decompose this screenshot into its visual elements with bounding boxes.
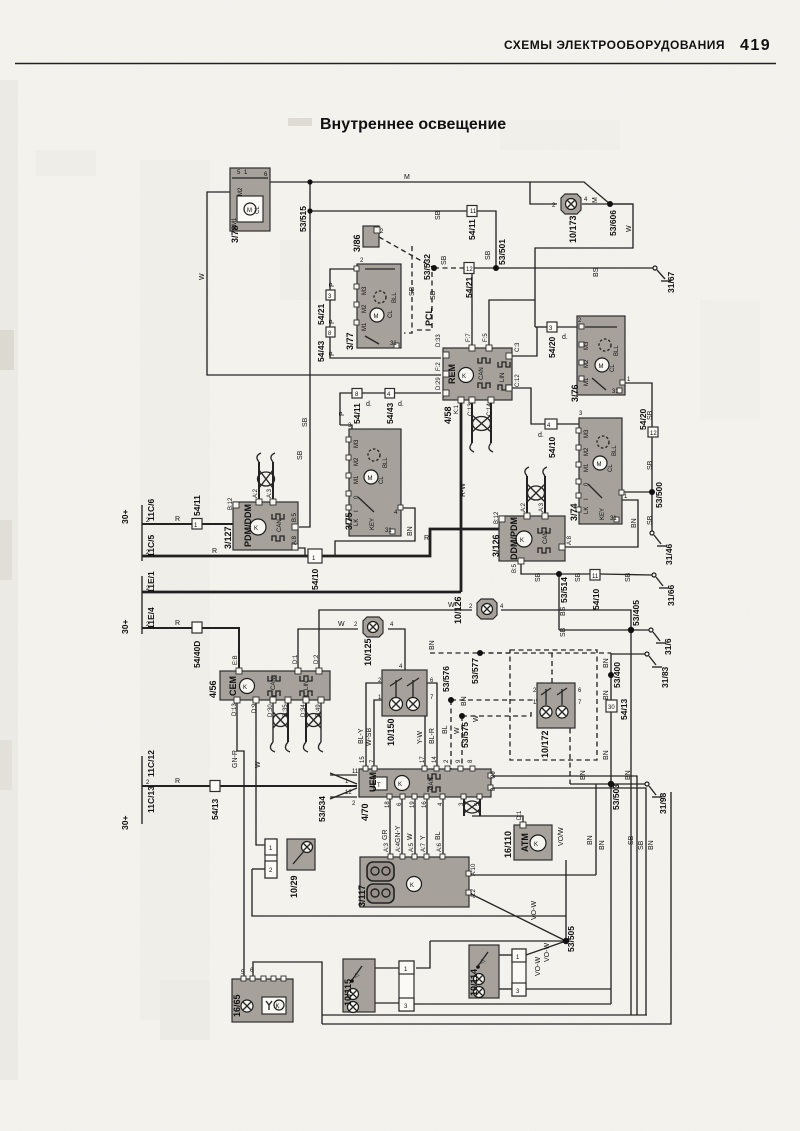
svg-text:GN-R: GN-R <box>232 750 239 768</box>
svg-text:M2: M2 <box>238 187 244 196</box>
svg-text:16/110: 16/110 <box>503 831 513 858</box>
svg-text:BL-Y: BL-Y <box>358 728 365 744</box>
svg-text:11: 11 <box>470 209 477 215</box>
svg-text:BS: BS <box>593 267 600 277</box>
svg-text:54/21: 54/21 <box>316 303 326 325</box>
svg-text:SB: SB <box>297 450 304 460</box>
svg-text:SB: SB <box>302 417 309 427</box>
svg-text:VO-W: VO-W <box>544 943 551 962</box>
svg-text:53/500: 53/500 <box>654 482 664 508</box>
svg-text:REM: REM <box>447 364 457 384</box>
svg-text:54/43: 54/43 <box>385 402 395 424</box>
svg-text:16: 16 <box>422 801 428 808</box>
svg-text:▷: ▷ <box>481 959 486 965</box>
svg-text:CL: CL <box>388 310 394 318</box>
svg-text:419: 419 <box>740 37 771 54</box>
svg-text:4/56: 4/56 <box>208 680 218 698</box>
svg-text:M3: M3 <box>584 341 590 350</box>
svg-text:W: W <box>407 833 414 840</box>
svg-text:54/40D: 54/40D <box>192 641 202 668</box>
svg-text:ATM: ATM <box>520 833 530 852</box>
svg-text:CAN: CAN <box>479 367 485 380</box>
svg-text:3/86: 3/86 <box>352 234 362 252</box>
svg-text:A:8: A:8 <box>567 535 573 545</box>
svg-text:54/11: 54/11 <box>192 495 202 516</box>
svg-text:W-SB: W-SB <box>366 728 373 746</box>
svg-text:SB: SB <box>575 572 582 582</box>
svg-text:M2: M2 <box>354 457 360 466</box>
svg-text:15: 15 <box>360 756 366 763</box>
svg-text:31/66: 31/66 <box>666 584 676 606</box>
svg-text:M: M <box>592 197 599 203</box>
svg-text:M1: M1 <box>584 463 590 472</box>
svg-text:GR: GR <box>382 830 389 841</box>
svg-text:M: M <box>404 174 410 181</box>
svg-text:53/514: 53/514 <box>559 577 569 603</box>
svg-text:M3: M3 <box>584 429 590 438</box>
svg-text:VO-W: VO-W <box>531 901 538 920</box>
svg-text:16/65: 16/65 <box>232 994 242 1017</box>
svg-text:BN: BN <box>648 840 655 850</box>
svg-text:D:29: D:29 <box>436 377 442 390</box>
svg-text:D:2: D:2 <box>314 654 320 664</box>
svg-text:BL: BL <box>442 725 449 734</box>
svg-text:53/501: 53/501 <box>497 239 507 265</box>
svg-text:M: M <box>597 462 602 468</box>
svg-text:W: W <box>626 225 633 232</box>
svg-text:CAN: CAN <box>543 531 549 544</box>
svg-text:53/577: 53/577 <box>470 658 480 684</box>
svg-text:SB: SB <box>409 286 416 296</box>
svg-text:W: W <box>199 273 206 280</box>
svg-text:BN: BN <box>407 526 414 536</box>
svg-text:CL: CL <box>608 464 614 472</box>
svg-text:LIN: LIN <box>500 373 506 382</box>
svg-text:K: K <box>243 685 247 691</box>
svg-text:M1: M1 <box>354 475 360 484</box>
svg-text:30+: 30+ <box>120 510 130 524</box>
svg-text:▷: ▷ <box>355 973 360 979</box>
svg-text:53/606: 53/606 <box>608 210 618 236</box>
svg-text:BN: BN <box>461 696 468 706</box>
svg-text:BN: BN <box>625 770 632 780</box>
svg-text:CAN: CAN <box>277 519 283 532</box>
svg-text:10/29: 10/29 <box>289 875 299 898</box>
svg-text:54/13: 54/13 <box>619 698 629 720</box>
svg-text:53/575: 53/575 <box>460 722 470 748</box>
svg-text:W: W <box>454 727 461 734</box>
svg-text:SB: SB <box>435 210 442 220</box>
svg-text:BN: BN <box>603 690 610 700</box>
svg-text:12: 12 <box>650 431 657 437</box>
svg-text:PCL: PCL <box>424 307 434 326</box>
svg-text:D:35: D:35 <box>283 704 289 717</box>
svg-text:19: 19 <box>410 801 416 808</box>
svg-text:SB: SB <box>560 627 567 637</box>
svg-text:SB: SB <box>535 572 542 582</box>
svg-text:SB: SB <box>625 572 632 582</box>
svg-text:Y-W: Y-W <box>417 731 424 744</box>
svg-text:W: W <box>473 715 480 722</box>
svg-text:54/10: 54/10 <box>547 436 557 458</box>
svg-text:D:9: D:9 <box>252 703 258 713</box>
svg-text:A:5: A:5 <box>409 842 415 852</box>
svg-text:10/114: 10/114 <box>469 969 479 996</box>
svg-text:31/67: 31/67 <box>666 271 676 293</box>
svg-text:53/576: 53/576 <box>441 666 451 692</box>
svg-text:14: 14 <box>432 756 438 763</box>
svg-text:K: K <box>462 374 466 380</box>
svg-text:3/127: 3/127 <box>223 526 233 549</box>
svg-text:K: K <box>254 526 258 532</box>
svg-text:Y: Y <box>420 835 427 840</box>
svg-text:KEY: KEY <box>600 508 606 520</box>
svg-text:11: 11 <box>352 769 359 775</box>
svg-text:M3: M3 <box>354 439 360 448</box>
svg-text:B:12: B:12 <box>228 497 234 510</box>
svg-text:d.: d. <box>366 401 372 408</box>
svg-text:A:7: A:7 <box>421 842 427 852</box>
svg-text:3/77: 3/77 <box>345 332 355 350</box>
svg-text:d.: d. <box>538 432 544 439</box>
svg-text:M1: M1 <box>232 217 238 226</box>
svg-text:CEM: CEM <box>228 676 238 696</box>
svg-text:SB: SB <box>485 250 492 260</box>
svg-text:CAN: CAN <box>271 677 277 690</box>
svg-text:BN: BN <box>599 840 606 850</box>
svg-text:D:1: D:1 <box>293 654 299 664</box>
svg-text:BLL: BLL <box>392 292 398 303</box>
svg-text:31: 31 <box>390 341 397 347</box>
svg-text:KEY: KEY <box>370 518 376 530</box>
svg-text:F:7: F:7 <box>466 333 472 342</box>
svg-text:M2: M2 <box>584 359 590 368</box>
svg-text:A:6: A:6 <box>437 842 443 852</box>
svg-text:SB: SB <box>430 290 437 300</box>
svg-text:D:34: D:34 <box>301 704 307 717</box>
svg-text:PDM/DDM: PDM/DDM <box>243 504 253 547</box>
svg-text:BN: BN <box>580 770 587 780</box>
svg-text:M1: M1 <box>584 377 590 386</box>
svg-text:LK: LK <box>584 507 590 514</box>
svg-text:31: 31 <box>610 516 617 522</box>
svg-text:11C/12: 11C/12 <box>146 750 156 777</box>
svg-text:BLL: BLL <box>614 345 620 356</box>
svg-text:SB: SB <box>647 410 654 420</box>
svg-text:SB: SB <box>628 835 635 845</box>
svg-text:VO/W: VO/W <box>558 827 565 846</box>
svg-text:C:13: C:13 <box>468 403 474 416</box>
svg-text:BS: BS <box>560 606 567 616</box>
svg-text:R: R <box>212 548 217 555</box>
svg-text:3/74: 3/74 <box>569 503 579 521</box>
svg-text:W: W <box>338 621 345 628</box>
svg-text:BN: BN <box>429 640 436 650</box>
svg-text:C:3: C:3 <box>515 342 521 352</box>
svg-text:17: 17 <box>420 756 426 763</box>
svg-text:30+: 30+ <box>120 620 130 634</box>
svg-text:СХЕМЫ ЭЛЕКТРООБОРУДОВАНИЯ: СХЕМЫ ЭЛЕКТРООБОРУДОВАНИЯ <box>504 38 725 52</box>
svg-text:CAN: CAN <box>429 777 435 790</box>
svg-text:10/125: 10/125 <box>363 638 373 666</box>
svg-text:D:13: D:13 <box>232 703 238 716</box>
svg-text:A:2: A:2 <box>521 502 527 512</box>
svg-text:P: P <box>329 282 336 287</box>
svg-text:11: 11 <box>592 574 599 580</box>
svg-text:SB: SB <box>647 460 654 470</box>
svg-text:54/10: 54/10 <box>310 568 320 590</box>
svg-text:BN: BN <box>587 835 594 845</box>
svg-text:3/76: 3/76 <box>570 384 580 402</box>
svg-text:BLL: BLL <box>612 445 618 456</box>
svg-text:10/115: 10/115 <box>343 979 353 1006</box>
svg-text:53/400: 53/400 <box>612 662 622 688</box>
svg-text:53/503: 53/503 <box>611 784 621 810</box>
svg-text:10/150: 10/150 <box>386 718 396 746</box>
svg-text:30: 30 <box>608 705 615 711</box>
svg-text:D:1: D:1 <box>517 810 523 820</box>
svg-text:A:2: A:2 <box>253 488 259 498</box>
svg-text:F:2: F:2 <box>436 362 442 371</box>
svg-text:53/534: 53/534 <box>317 796 327 822</box>
svg-text:C:14: C:14 <box>487 403 493 416</box>
svg-text:CL: CL <box>379 476 385 484</box>
svg-text:M1: M1 <box>362 322 368 331</box>
svg-text:30+: 30+ <box>120 816 130 830</box>
svg-text:53/515: 53/515 <box>298 206 308 232</box>
svg-text:Внутреннее освещение: Внутреннее освещение <box>320 116 506 133</box>
svg-text:3/75: 3/75 <box>344 512 354 530</box>
svg-text:A:10: A:10 <box>471 863 477 876</box>
svg-text:20: 20 <box>491 771 497 778</box>
svg-text:W: W <box>255 761 262 768</box>
svg-text:R: R <box>175 620 180 627</box>
svg-text:53/405: 53/405 <box>631 600 641 626</box>
svg-text:M2: M2 <box>362 304 368 313</box>
svg-text:GN-Y: GN-Y <box>395 825 402 843</box>
svg-text:P: P <box>339 411 346 416</box>
svg-text:E:B: E:B <box>233 655 239 665</box>
svg-text:54/21: 54/21 <box>464 276 474 298</box>
svg-text:M: M <box>599 364 604 370</box>
svg-text:31/83: 31/83 <box>660 666 670 688</box>
svg-text:K: K <box>520 538 524 544</box>
svg-text:B:5: B:5 <box>292 512 298 522</box>
svg-text:d.: d. <box>398 401 404 408</box>
svg-text:K: K <box>398 782 402 788</box>
svg-text:B:12: B:12 <box>494 511 500 524</box>
svg-text:K:1: K:1 <box>454 404 460 414</box>
svg-text:54/11: 54/11 <box>352 403 362 424</box>
svg-text:12: 12 <box>466 267 473 273</box>
svg-text:SB: SB <box>647 515 654 525</box>
svg-text:M3: M3 <box>362 286 368 295</box>
svg-text:M2: M2 <box>584 447 590 456</box>
svg-text:K: K <box>276 1004 280 1010</box>
svg-text:VO-W: VO-W <box>535 957 542 976</box>
svg-text:54/11: 54/11 <box>467 219 477 240</box>
svg-text:M: M <box>368 476 373 482</box>
svg-text:3/126: 3/126 <box>491 534 501 557</box>
svg-text:DDM/PDM: DDM/PDM <box>509 517 519 560</box>
svg-text:CL: CL <box>610 364 616 372</box>
svg-text:d.: d. <box>562 334 568 341</box>
svg-text:31/6: 31/6 <box>663 638 673 655</box>
svg-text:53/532: 53/532 <box>422 254 432 280</box>
svg-text:A:3: A:3 <box>267 488 273 498</box>
svg-text:SB: SB <box>441 255 448 265</box>
svg-text:R: R <box>175 516 180 523</box>
svg-text:LK: LK <box>354 519 360 526</box>
svg-text:UEM: UEM <box>368 772 378 792</box>
svg-text:4/70: 4/70 <box>360 803 370 821</box>
svg-text:M: M <box>374 314 379 320</box>
svg-text:11C/13: 11C/13 <box>146 786 156 813</box>
svg-text:B:5: B:5 <box>512 563 518 573</box>
svg-text:LIN: LIN <box>304 681 310 690</box>
svg-text:W: W <box>448 602 455 609</box>
svg-text:D:30: D:30 <box>268 704 274 717</box>
svg-text:54/43: 54/43 <box>316 340 326 362</box>
svg-text:54/20: 54/20 <box>547 336 557 358</box>
svg-text:A:2: A:2 <box>471 888 477 898</box>
svg-text:D:33: D:33 <box>436 334 442 347</box>
svg-text:M: M <box>247 208 252 214</box>
svg-text:BL: BL <box>435 831 442 840</box>
svg-text:R: R <box>175 778 180 785</box>
svg-text:BN: BN <box>603 658 610 668</box>
svg-text:A:8: A:8 <box>292 535 298 545</box>
svg-text:31/46: 31/46 <box>664 543 674 565</box>
svg-text:4/58: 4/58 <box>443 406 453 424</box>
svg-text:BL-R: BL-R <box>429 728 436 744</box>
svg-text:A:3: A:3 <box>539 502 545 512</box>
svg-text:54/13: 54/13 <box>210 798 220 820</box>
svg-text:BN: BN <box>631 518 638 528</box>
svg-text:54/10: 54/10 <box>591 588 601 610</box>
svg-text:C:12: C:12 <box>515 374 521 387</box>
svg-text:F:5: F:5 <box>483 333 489 342</box>
svg-text:31: 31 <box>385 528 392 534</box>
svg-text:P: P <box>329 351 336 356</box>
svg-text:R-W: R-W <box>460 483 467 497</box>
svg-text:12: 12 <box>345 790 352 796</box>
svg-text:K: K <box>534 842 538 848</box>
svg-text:A:3: A:3 <box>384 842 390 852</box>
svg-text:A:4: A:4 <box>396 842 402 852</box>
svg-text:K: K <box>410 883 414 889</box>
svg-text:10/173: 10/173 <box>568 215 578 243</box>
svg-text:18: 18 <box>385 801 391 808</box>
svg-text:R: R <box>424 535 429 542</box>
svg-text:D:49: D:49 <box>316 704 322 717</box>
svg-text:CL: CL <box>255 206 261 214</box>
svg-text:31: 31 <box>612 389 619 395</box>
svg-text:3/117: 3/117 <box>357 885 367 907</box>
svg-text:53/505: 53/505 <box>566 926 576 952</box>
svg-text:31/98: 31/98 <box>658 792 668 814</box>
svg-text:10/126: 10/126 <box>453 596 463 624</box>
svg-text:BLL: BLL <box>383 457 389 468</box>
svg-text:BN: BN <box>603 750 610 760</box>
svg-text:P: P <box>329 319 336 324</box>
svg-text:10/172: 10/172 <box>540 730 550 758</box>
svg-text:SB: SB <box>638 840 645 850</box>
